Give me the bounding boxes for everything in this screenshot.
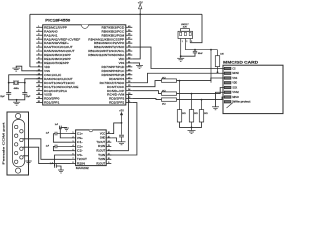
svg-text:C2-: C2- (77, 150, 83, 153)
svg-text:4: 4 (38, 38, 39, 40)
svg-text:36: 36 (128, 42, 130, 44)
svg-text:11: 11 (38, 65, 40, 67)
svg-text:T2IN: T2IN (98, 159, 105, 161)
svg-text:5: 5 (73, 149, 74, 151)
svg-text:VS-: VS- (77, 154, 83, 157)
svg-text:T1IN: T1IN (98, 155, 105, 157)
svg-text:31: 31 (128, 61, 130, 63)
svg-text:C1+: C1+ (77, 133, 84, 136)
svg-text:19: 19 (38, 97, 40, 99)
svg-text:16: 16 (108, 132, 110, 134)
svg-text:+5V: +5V (138, 0, 143, 4)
svg-text:30: 30 (128, 65, 130, 67)
svg-text:32: 32 (128, 57, 130, 59)
svg-text:MISO: MISO (232, 97, 239, 99)
svg-text:35: 35 (128, 46, 130, 48)
svg-text:VDD: VDD (232, 83, 237, 85)
svg-text:CS: CS (232, 68, 236, 70)
svg-text:34: 34 (128, 50, 130, 52)
svg-text:T2OUT: T2OUT (77, 158, 88, 161)
svg-text:1uF: 1uF (46, 133, 50, 135)
svg-text:9: 9 (38, 57, 39, 59)
svg-text:15: 15 (38, 81, 40, 83)
svg-text:VCC: VCC (100, 133, 106, 135)
svg-text:Female COM port: Female COM port (2, 122, 5, 165)
svg-text:C1-: C1- (77, 141, 83, 144)
svg-text:2K2: 2K2 (162, 104, 166, 106)
svg-text:+5V: +5V (119, 109, 124, 113)
svg-text:3: 3 (38, 34, 39, 36)
svg-text:VS+: VS+ (77, 137, 84, 140)
svg-text:R2IN: R2IN (77, 162, 85, 165)
svg-text:6: 6 (38, 46, 39, 48)
svg-text:MAX232: MAX232 (76, 166, 90, 170)
svg-text:28: 28 (128, 73, 130, 75)
svg-text:13: 13 (108, 145, 110, 147)
svg-text:3: 3 (73, 141, 74, 143)
svg-text:1: 1 (38, 26, 39, 28)
svg-text:9: 9 (108, 162, 109, 164)
svg-text:10: 10 (108, 158, 110, 160)
svg-text:RD1/SPP1: RD1/SPP1 (44, 101, 60, 105)
svg-text:8: 8 (38, 54, 39, 56)
svg-text:68nF: 68nF (198, 53, 203, 55)
svg-text:4MHz: 4MHz (14, 88, 19, 90)
svg-text:12: 12 (108, 149, 110, 151)
svg-text:15: 15 (108, 136, 110, 138)
svg-text:MMC/SD CARD: MMC/SD CARD (223, 61, 258, 65)
svg-text:22pF: 22pF (0, 96, 5, 98)
svg-text:R1IN: R1IN (98, 146, 105, 148)
svg-text:2: 2 (38, 30, 39, 32)
svg-text:8: 8 (73, 162, 74, 164)
svg-text:VSS: VSS (232, 78, 237, 80)
svg-text:26: 26 (128, 81, 130, 83)
svg-text:22pF: 22pF (26, 96, 31, 98)
svg-text:RD2/SPP2: RD2/SPP2 (109, 101, 125, 105)
svg-text:GND: GND (100, 138, 106, 140)
svg-text:C2+: C2+ (77, 145, 84, 148)
svg-text:18: 18 (38, 93, 40, 95)
svg-text:1uF: 1uF (55, 124, 59, 126)
svg-text:40: 40 (128, 26, 130, 28)
svg-text:11: 11 (108, 154, 110, 156)
svg-text:27: 27 (128, 77, 130, 79)
svg-text:6: 6 (73, 154, 74, 156)
svg-text:4: 4 (73, 145, 74, 147)
svg-text:1: 1 (73, 132, 74, 134)
svg-text:17: 17 (38, 89, 40, 91)
svg-text:VSS2: VSS2 (232, 92, 239, 94)
svg-text:5: 5 (38, 42, 39, 44)
svg-text:20: 20 (38, 101, 40, 103)
svg-text:1uF: 1uF (46, 145, 50, 147)
svg-text:Write protect: Write protect (232, 101, 250, 104)
svg-text:39: 39 (128, 30, 130, 32)
svg-text:29: 29 (128, 69, 130, 71)
svg-text:3K3: 3K3 (182, 113, 186, 115)
svg-text:1: 1 (182, 41, 183, 43)
svg-text:MOSI: MOSI (232, 73, 239, 75)
svg-text:3K3: 3K3 (194, 113, 198, 115)
svg-text:7: 7 (73, 158, 74, 160)
svg-text:SCK: SCK (232, 87, 237, 89)
svg-text:16: 16 (38, 85, 40, 87)
svg-text:10: 10 (38, 61, 40, 63)
svg-text:38: 38 (128, 34, 130, 36)
svg-text:24: 24 (128, 89, 130, 91)
svg-text:7: 7 (38, 50, 39, 52)
svg-text:2: 2 (186, 41, 187, 43)
svg-text:R2OUT: R2OUT (96, 163, 105, 165)
svg-text:2: 2 (73, 136, 74, 138)
svg-text:37: 37 (128, 38, 130, 40)
svg-text:14: 14 (108, 141, 110, 143)
svg-text:25: 25 (128, 85, 130, 87)
svg-text:10K: 10K (220, 53, 224, 55)
svg-text:33: 33 (128, 54, 130, 56)
svg-text:3K3: 3K3 (204, 113, 208, 115)
svg-text:PIC18F4550: PIC18F4550 (45, 18, 70, 22)
svg-text:R1OUT: R1OUT (96, 151, 105, 153)
svg-text:T1OUT: T1OUT (96, 142, 105, 144)
